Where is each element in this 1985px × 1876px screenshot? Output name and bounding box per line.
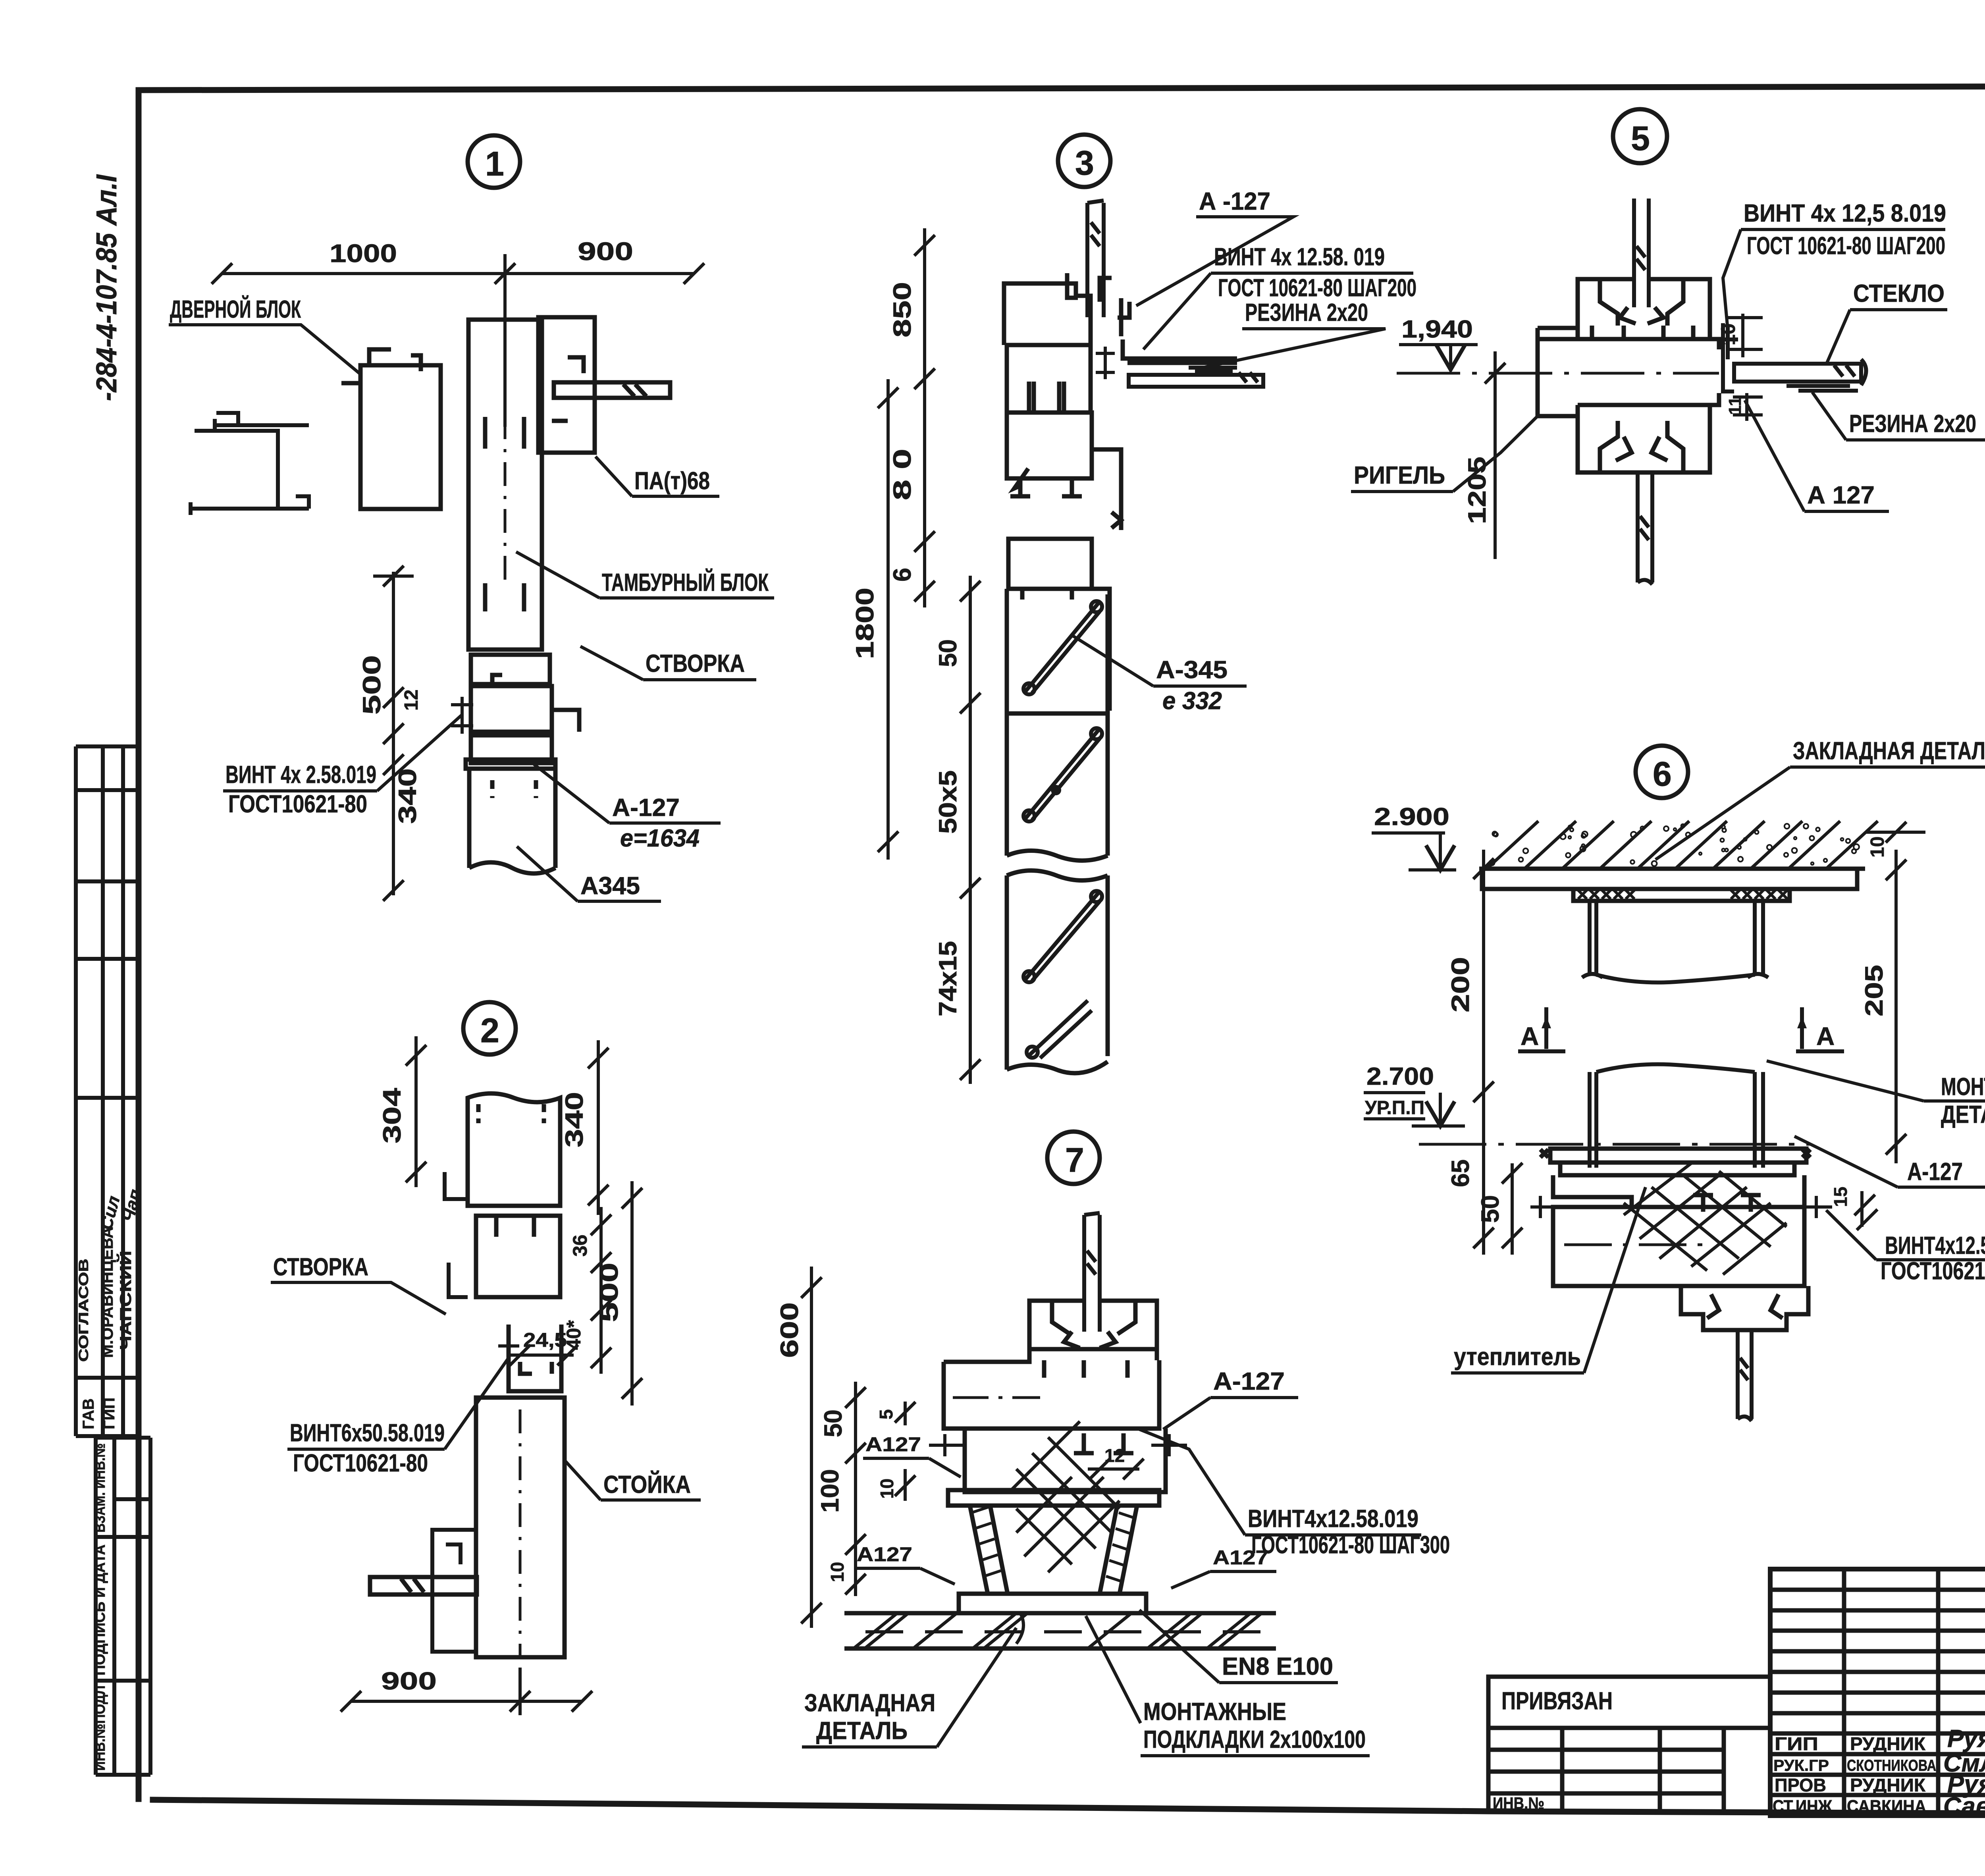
- elevation 2.900: [1372, 803, 1456, 870]
- dim 36/40 chain: [599, 1207, 603, 1374]
- dim 205 d6: [1894, 850, 1898, 1163]
- elevation 2.700 УР.П.П: [1364, 1063, 1465, 1126]
- svg-text:УР.П.П: УР.П.П: [1365, 1097, 1424, 1118]
- створка assembly below mullion: [466, 655, 579, 769]
- svg-text:11: 11: [1725, 396, 1745, 415]
- bottom plate d7: [959, 1594, 1146, 1613]
- elevation 1,940: [1399, 316, 1478, 370]
- left bracket pieces: [445, 1172, 468, 1297]
- svg-text:600: 600: [776, 1302, 804, 1358]
- svg-text:ГОСТ10621-80: ГОСТ10621-80: [228, 791, 367, 818]
- svg-text:РИГЕЛЬ: РИГЕЛЬ: [1354, 462, 1445, 489]
- svg-text:340: 340: [561, 1092, 588, 1147]
- stacked panels d3: [1007, 589, 1110, 1073]
- dim 500: [630, 1181, 634, 1406]
- screw d3: [1096, 347, 1115, 379]
- connector d3: [1092, 449, 1121, 530]
- concrete ceiling hatch d6: [1487, 821, 1878, 869]
- label СТВОРКА d2: [271, 1253, 446, 1314]
- detail circle 1: [468, 135, 520, 188]
- glass bar below d5: [1638, 472, 1652, 584]
- svg-text:ВЗАМ. ИНВ.№: ВЗАМ. ИНВ.№: [92, 1443, 108, 1533]
- top profile block d5: [1578, 279, 1710, 339]
- svg-text:2.700: 2.700: [1366, 1063, 1434, 1090]
- embedded plate d6: [1482, 869, 1857, 901]
- svg-text:А 127: А 127: [1807, 482, 1875, 509]
- trapezoid support d7: [970, 1506, 1137, 1594]
- svg-text:СТОЙКА: СТОЙКА: [603, 1471, 691, 1498]
- svg-text:7: 7: [1065, 1141, 1084, 1179]
- svg-text:6: 6: [1653, 755, 1672, 793]
- svg-text:ДЕТАЛЬ: ДЕТАЛЬ: [1941, 1101, 1985, 1128]
- big crosshatch d6: [1624, 1163, 1786, 1274]
- label ЕN8 Е100 d7: [1139, 1610, 1338, 1683]
- title block grid left part: [1770, 1569, 1985, 1816]
- bottom tail profile d6: [1681, 1286, 1808, 1330]
- svg-text:ВИНТ4х12.58.019: ВИНТ4х12.58.019: [1885, 1232, 1985, 1259]
- rubber strips d3: [1189, 368, 1237, 372]
- svg-text:ГОСТ10621-80: ГОСТ10621-80: [293, 1450, 428, 1477]
- top profile block d7: [1029, 1301, 1157, 1360]
- detail circle 5: [1613, 109, 1667, 163]
- section mark A left: [1518, 1007, 1565, 1051]
- svg-text:СОГЛАСОВ: СОГЛАСОВ: [76, 1259, 91, 1362]
- label А345: [517, 846, 661, 901]
- svg-text:РУДНИК: РУДНИК: [1850, 1775, 1926, 1795]
- left stamp upper table: [76, 746, 140, 1436]
- glass bar below d6: [1738, 1330, 1752, 1421]
- svg-text:50х5: 50х5: [934, 770, 962, 834]
- label А-127 d7 right: [1163, 1368, 1298, 1429]
- svg-text:1000: 1000: [330, 239, 397, 268]
- dim 50/100 d7: [854, 1382, 857, 1596]
- right door leaf with handle: [538, 317, 670, 453]
- label утеплитель d6: [1451, 1187, 1646, 1373]
- detail circle 3: [1058, 135, 1110, 187]
- central band d5: [1578, 339, 1719, 405]
- box2 d3: [1007, 345, 1091, 413]
- dim 1800 d3: [887, 379, 890, 860]
- svg-text:5: 5: [1631, 120, 1650, 158]
- detail circle 6: [1636, 746, 1688, 798]
- svg-text:РЕЗИНА 2х20: РЕЗИНА 2х20: [1849, 410, 1976, 438]
- svg-text:РУДНИК: РУДНИК: [1850, 1733, 1926, 1754]
- svg-text:100: 100: [816, 1469, 844, 1513]
- ceiling slab soffit line d6: [1479, 867, 1865, 871]
- privyazan annex box: [1488, 1677, 1770, 1814]
- svg-text:ЧАПСКИЙ: ЧАПСКИЙ: [116, 1251, 135, 1350]
- label А-127 е=1634: [534, 764, 721, 852]
- створка middle box: [476, 1216, 560, 1297]
- svg-text:1205: 1205: [1463, 457, 1491, 524]
- dim 12 d7: [1088, 1467, 1139, 1471]
- svg-text:А-345: А-345: [1156, 656, 1228, 684]
- svg-text:Руя: Руя: [1947, 1725, 1985, 1753]
- svg-text:ГАВ: ГАВ: [80, 1398, 97, 1429]
- dim 900 d2: [351, 1668, 582, 1715]
- section mark A right: [1796, 1007, 1844, 1051]
- glass bar top d7: [1084, 1213, 1100, 1332]
- svg-text:2: 2: [480, 1012, 499, 1050]
- svg-text:5: 5: [876, 1409, 896, 1419]
- screws left right d6: [1530, 1196, 1832, 1218]
- svg-text:ЗАКЛАДНАЯ: ЗАКЛАДНАЯ: [804, 1689, 935, 1717]
- dim 10 d5: [1727, 314, 1763, 357]
- elevation 1,940 d5 left: [0, 0, 0, 0]
- screw target detail2: [498, 1338, 519, 1376]
- svg-text:ВИНТ 4х 12.58. 019: ВИНТ 4х 12.58. 019: [1214, 243, 1385, 271]
- svg-text:ПРОВ: ПРОВ: [1775, 1775, 1826, 1795]
- small U box: [509, 1325, 561, 1391]
- label ВИНТ4х12.58.019 ШАГ300 d6: [1826, 1210, 1985, 1285]
- left wall attachment: [191, 413, 309, 515]
- svg-text:15: 15: [1830, 1187, 1851, 1207]
- svg-text:ГОСТ 10621-80 ШАГ200: ГОСТ 10621-80 ШАГ200: [1218, 274, 1416, 302]
- posts upper d6: [1582, 901, 1768, 983]
- dim 340 right: [597, 1040, 600, 1215]
- second box d7: [965, 1429, 1166, 1492]
- svg-text:900: 900: [578, 237, 633, 266]
- svg-text:ПОДКЛАДКИ 2х100х100: ПОДКЛАДКИ 2х100х100: [1143, 1726, 1366, 1753]
- centerline d6: [1419, 1143, 1810, 1146]
- svg-text:900: 900: [381, 1668, 437, 1695]
- glass bar above d5: [1634, 199, 1649, 307]
- svg-text:МОНТАЖНАЯ: МОНТАЖНАЯ: [1941, 1073, 1985, 1101]
- label РЕЗИНА 2х20 d5: [1812, 392, 1985, 440]
- svg-text:200: 200: [1447, 957, 1474, 1012]
- right L bracket and screw d5: [1717, 323, 1738, 391]
- rubber lines d5: [1786, 386, 1858, 391]
- label МОНТАЖНАЯ ДЕТАЛЬ d6: [1767, 1061, 1985, 1128]
- label ВИНТ4х12.58.019 ШАГ300 d7: [1139, 1429, 1450, 1559]
- dim 304: [414, 1036, 418, 1187]
- floor slab d7: [844, 1613, 1276, 1648]
- svg-text:12: 12: [401, 690, 422, 711]
- svg-text:ВИНТ4х12.58.019: ВИНТ4х12.58.019: [1248, 1505, 1418, 1533]
- svg-text:А345: А345: [580, 872, 640, 900]
- dim line 1000/900: [222, 254, 694, 427]
- svg-text:ПРИВЯЗАН: ПРИВЯЗАН: [1501, 1687, 1613, 1715]
- svg-text:ДЕТАЛЬ: ДЕТАЛЬ: [816, 1717, 908, 1745]
- label МОНТАЖНЫЕ ПОДКЛАДКИ d7: [1086, 1616, 1370, 1756]
- glass pane d3: [1129, 372, 1263, 387]
- svg-text:МОНТАЖНЫЕ: МОНТАЖНЫЕ: [1143, 1698, 1286, 1726]
- crosshatch in trapezoid d7: [1008, 1421, 1120, 1572]
- svg-text:-284-4-107.85 Ал.I: -284-4-107.85 Ал.I: [91, 174, 123, 401]
- svg-text:РУК.ГР: РУК.ГР: [1773, 1757, 1829, 1774]
- detail circle 7: [1047, 1132, 1100, 1184]
- svg-text:ГИП: ГИП: [100, 1398, 118, 1429]
- svg-text:А127: А127: [1213, 1546, 1268, 1569]
- label ДВЕРНОЙ БЛОК: [169, 295, 359, 373]
- top box d3: [1004, 273, 1129, 345]
- door block frame: [341, 349, 441, 509]
- A345 lower profile block: [469, 769, 555, 873]
- tall grid outer border: [1770, 1569, 1985, 1816]
- montage assembly plate d6: [1540, 1149, 1810, 1175]
- tambour block central mullion: [468, 320, 542, 650]
- svg-text:12: 12: [1104, 1445, 1125, 1466]
- svg-text:850: 850: [888, 282, 916, 337]
- svg-text:ЕN8 Е100: ЕN8 Е100: [1222, 1653, 1333, 1680]
- label А-127 d6: [0, 0, 0, 0]
- label ПА(т)68: [595, 457, 719, 496]
- svg-text:САВКИНА: САВКИНА: [1847, 1797, 1926, 1816]
- svg-text:А: А: [1816, 1022, 1835, 1051]
- svg-text:6: 6: [888, 568, 916, 582]
- svg-text:ГОСТ10621-80 ШАГ300: ГОСТ10621-80 ШАГ300: [1251, 1531, 1450, 1559]
- label РИГЕЛЬ: [1351, 416, 1538, 492]
- svg-text:10: 10: [877, 1479, 897, 1499]
- glass bar top d3: [1087, 201, 1104, 317]
- svg-text:1: 1: [485, 145, 504, 183]
- svg-text:СТЕКЛО: СТЕКЛО: [1853, 280, 1945, 307]
- svg-text:утеплитель: утеплитель: [1454, 1343, 1581, 1371]
- svg-text:50: 50: [1476, 1195, 1504, 1223]
- svg-text:ВИНТ6х50.58.019: ВИНТ6х50.58.019: [290, 1419, 445, 1447]
- svg-text:65: 65: [1447, 1159, 1474, 1187]
- svg-text:2.900: 2.900: [1374, 803, 1449, 831]
- svg-text:ИНВ.№ПОДЛ: ИНВ.№ПОДЛ: [92, 1685, 108, 1771]
- dim 11 d5: [1733, 393, 1763, 421]
- svg-text:304: 304: [378, 1088, 406, 1143]
- dim 15 d6: [1860, 1191, 1864, 1227]
- weld xxx marks d6: [1578, 890, 1787, 899]
- svg-text:1,940: 1,940: [1401, 316, 1473, 343]
- svg-text:ГИП: ГИП: [1775, 1733, 1818, 1754]
- svg-text:74х15: 74х15: [934, 941, 962, 1016]
- left ригель box d5: [1538, 328, 1578, 416]
- svg-text:500: 500: [358, 655, 386, 715]
- label А 127 d5: [1745, 400, 1889, 511]
- glass pane right d5: [1734, 359, 1866, 385]
- dim chain 50/50x5/74x15 d3: [969, 576, 972, 1084]
- svg-text:10: 10: [827, 1562, 848, 1582]
- panel diagonals d3: [1023, 601, 1102, 1058]
- svg-text:А-127: А-127: [1907, 1158, 1963, 1186]
- svg-text:ЗАКЛАДНАЯ ДЕТАЛЬ: ЗАКЛАДНАЯ ДЕТАЛЬ: [1793, 737, 1985, 765]
- svg-text:СТ.ИНЖ: СТ.ИНЖ: [1773, 1797, 1832, 1816]
- Г angle to right d3: [1123, 339, 1237, 363]
- стойка tall column: [476, 1398, 565, 1657]
- svg-text:е 332: е 332: [1162, 687, 1222, 715]
- label ТАМБУРНЫЙ БЛОК: [516, 552, 774, 598]
- svg-text:А127: А127: [865, 1433, 921, 1456]
- dim 600 d7: [810, 1267, 813, 1628]
- upper block of stand: [468, 1093, 560, 1206]
- label ЗАКЛАДНАЯ ДЕТАЛЬ d6: [1655, 737, 1985, 860]
- svg-text:е=1634: е=1634: [620, 825, 700, 852]
- box4 d3: [1008, 539, 1092, 600]
- label А-345 е332 d3: [1072, 635, 1247, 715]
- svg-text:А-127: А-127: [1213, 1368, 1285, 1395]
- svg-text:Сав: Сав: [1943, 1793, 1985, 1820]
- label А127 d7 left2: [854, 1543, 955, 1584]
- main box d7: [944, 1349, 1159, 1429]
- label СТВОРКА d1: [580, 646, 756, 680]
- svg-text:ДВЕРНОЙ БЛОК: ДВЕРНОЙ БЛОК: [170, 295, 301, 323]
- dim 5/10 inner d7: [904, 1402, 907, 1501]
- label СТОЙКА: [565, 1461, 701, 1500]
- dim 10 d6 top: [1866, 831, 1925, 834]
- label ВИНТ 4х2.58.019 ГОСТ10621-80: [223, 715, 462, 818]
- label А127 d7 left1: [863, 1433, 961, 1477]
- label ВИНТ6х50.58.019 d2: [287, 1358, 509, 1477]
- label А-127 d3: [1136, 188, 1293, 306]
- dim chain 850/80/6 d3: [923, 228, 926, 607]
- label СТЕКЛО d5: [1826, 280, 1947, 364]
- label А127 d7 right2: [1171, 1546, 1276, 1588]
- svg-text:СКОТНИКОВА: СКОТНИКОВА: [1847, 1757, 1936, 1774]
- svg-text:ПОДПИСЬ И ДАТА: ПОДПИСЬ И ДАТА: [92, 1544, 108, 1675]
- svg-text:1800: 1800: [851, 588, 879, 659]
- dim 1205 d5: [1494, 351, 1497, 559]
- svg-text:36: 36: [569, 1234, 591, 1257]
- label ВИНТ 4х12,58.019 d5: [1723, 200, 1946, 330]
- svg-text:ВИНТ 4х 12,5 8.019: ВИНТ 4х 12,5 8.019: [1744, 200, 1946, 227]
- svg-text:А-127: А-127: [612, 794, 680, 821]
- svg-text:М.ОРАВИНЦЕВА: М.ОРАВИНЦЕВА: [99, 1227, 116, 1358]
- svg-text:СТВОРКА: СТВОРКА: [646, 650, 745, 677]
- svg-text:РЕЗИНА 2х20: РЕЗИНА 2х20: [1245, 299, 1368, 326]
- box3 d3: [1007, 413, 1092, 496]
- trapezoid hatch d7: [971, 1507, 1135, 1582]
- svg-text:ИНВ.№: ИНВ.№: [1493, 1794, 1544, 1812]
- svg-text:ПА(т)68: ПА(т)68: [634, 467, 710, 495]
- left stamp lower table: [96, 1438, 150, 1775]
- svg-text:10: 10: [1867, 837, 1888, 858]
- svg-text:50: 50: [819, 1409, 847, 1437]
- bottom profile block d5: [1578, 405, 1710, 472]
- montage middle box d6: [1553, 1175, 1804, 1286]
- left bracket lower: [432, 1530, 476, 1652]
- label ЗАКЛАДНАЯ ДЕТАЛЬ d7: [802, 1628, 1016, 1747]
- svg-text:ТАМБУРНЫЙ БЛОК: ТАМБУРНЫЙ БЛОК: [602, 569, 769, 596]
- svg-text:3: 3: [1075, 144, 1094, 182]
- svg-text:А -127: А -127: [1199, 188, 1270, 215]
- screw ВИНТ target: [451, 697, 473, 734]
- svg-text:8 0: 8 0: [888, 449, 916, 500]
- dim 50 d6: [1511, 1163, 1514, 1255]
- svg-text:50: 50: [934, 639, 962, 667]
- detail circle 2: [463, 1002, 516, 1055]
- A127 plate d7: [948, 1490, 1159, 1506]
- svg-text:ВИНТ 4х 2.58.019: ВИНТ 4х 2.58.019: [225, 761, 376, 789]
- posts lower d6: [1590, 1064, 1763, 1168]
- label ВИНТ 4х12.58.019 ГОСТ d3: [1143, 243, 1416, 349]
- svg-text:340: 340: [394, 768, 422, 824]
- svg-text:205: 205: [1860, 965, 1888, 1016]
- handle bar detail2: [370, 1577, 477, 1595]
- dim 200/65 d6: [1482, 850, 1485, 1255]
- dim chain 500/12/340: [373, 572, 414, 895]
- svg-text:СТВОРКА: СТВОРКА: [273, 1253, 368, 1281]
- svg-text:ГОСТ 10621-80 ШАГ200: ГОСТ 10621-80 ШАГ200: [1747, 232, 1945, 260]
- svg-text:А127: А127: [857, 1543, 912, 1566]
- label РЕЗИНА 2х20 d3: [1199, 299, 1386, 368]
- svg-text:А: А: [1521, 1022, 1539, 1051]
- svg-text:ГОСТ10621-80 ШАГ300: ГОСТ10621-80 ШАГ300: [1881, 1257, 1985, 1285]
- screws d7: [929, 1434, 1187, 1456]
- dim 24,5: [508, 1353, 574, 1357]
